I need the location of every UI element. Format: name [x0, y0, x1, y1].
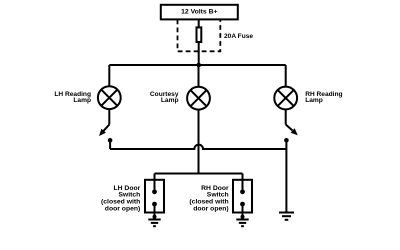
- svg-text:door open): door open): [193, 205, 229, 212]
- lamp RH reading: [274, 87, 297, 110]
- wire ground bus with hop over courtesy line: [110, 145, 286, 149]
- svg-text:(closed with: (closed with: [189, 198, 228, 205]
- switch RH reading lamp: [284, 109, 298, 143]
- wire top bus: [109, 64, 285, 66]
- wire courtesy lamp down to door switch feed: [198, 110, 200, 174]
- label LH Door Switch: [101, 185, 141, 213]
- svg-text:Switch: Switch: [207, 191, 229, 198]
- ground RH door switch: [236, 215, 248, 226]
- wire door switch feed: [155, 174, 243, 192]
- ground LH door switch: [148, 215, 160, 226]
- svg-text:Lamp: Lamp: [161, 97, 179, 104]
- door switch RH contacts: [240, 189, 245, 217]
- svg-text:Lamp: Lamp: [305, 97, 323, 104]
- door switch LH box: [145, 180, 164, 213]
- fuse 20A: [197, 27, 202, 42]
- svg-text:12 Volts B+: 12 Volts B+: [181, 9, 217, 16]
- svg-text:20A Fuse: 20A Fuse: [224, 33, 253, 40]
- wire RH switch down to ground: [285, 140, 287, 212]
- wire bus to LH lamp: [108, 65, 110, 87]
- lamp LH reading: [98, 86, 121, 109]
- wire bus to RH lamp: [285, 65, 287, 87]
- door switch RH box: [233, 180, 252, 213]
- svg-text:Lamp: Lamp: [73, 97, 91, 104]
- label RH Door Switch: [189, 185, 229, 213]
- fuse enclosure (dashed): [178, 20, 221, 52]
- node junction at fuse/bus: [196, 63, 201, 68]
- door switch LH contacts: [152, 189, 157, 217]
- lamp courtesy: [187, 87, 210, 110]
- wire LH switch to ground bus: [109, 140, 111, 149]
- svg-text:door open): door open): [105, 205, 141, 212]
- wire battery to fuse: [198, 19, 200, 28]
- wire fuse to node: [198, 43, 200, 65]
- ground right: [279, 213, 294, 220]
- svg-text:Switch: Switch: [118, 191, 140, 198]
- wire bus to courtesy lamp: [198, 65, 200, 87]
- battery box 12 Volts B+: [161, 5, 238, 20]
- switch LH reading lamp: [99, 109, 112, 143]
- svg-text:(closed with: (closed with: [101, 198, 140, 205]
